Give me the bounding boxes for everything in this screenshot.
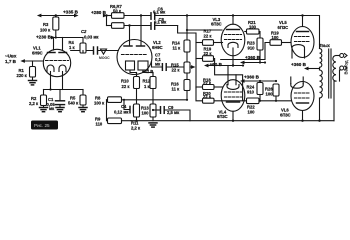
capacitor C7 <box>152 62 185 71</box>
label +230 V with arrow <box>36 35 55 40</box>
resistor R5 <box>79 95 87 112</box>
tube VL5 (6P3S) <box>291 16 314 59</box>
svg-text:22 к: 22 к <box>203 94 212 99</box>
svg-text:1,7 В: 1,7 В <box>5 59 17 64</box>
terminal output 1 <box>340 54 347 58</box>
svg-text:С2: С2 <box>81 29 87 34</box>
svg-text:+230 В: +230 В <box>36 35 52 40</box>
transformer Tvyh primary <box>318 49 322 122</box>
resistor R23 <box>257 38 263 63</box>
resistor R18 <box>196 85 223 90</box>
svg-text:22 к: 22 к <box>203 80 212 85</box>
svg-text:+42 В: +42 В <box>142 69 153 74</box>
capacitor C1 <box>56 101 65 112</box>
wire screen row to VL3 <box>187 29 222 31</box>
transformer secondary <box>333 56 340 121</box>
svg-text:0,03 мк: 0,03 мк <box>84 35 99 40</box>
svg-text:+360 В: +360 В <box>244 75 260 80</box>
svg-text:6Н9С: 6Н9С <box>152 45 163 50</box>
svg-text:100: 100 <box>266 92 274 97</box>
svg-text:100: 100 <box>248 109 256 114</box>
resistor R24 <box>257 83 263 102</box>
svg-text:Твых: Твых <box>319 43 331 48</box>
svg-text:22 к: 22 к <box>172 68 181 73</box>
wire +360 V tap upper <box>240 61 266 65</box>
figure label black box <box>31 121 58 130</box>
tube VL3 (6P3S) <box>221 16 245 67</box>
resistor R7 <box>107 16 151 29</box>
svg-text:Рис. 25: Рис. 25 <box>34 123 50 128</box>
resistor R6 <box>105 13 150 19</box>
resistor R16 <box>184 80 190 101</box>
terminal output 2 <box>340 66 348 81</box>
resistor R13 <box>134 104 140 122</box>
tube VL2 (6N9S) <box>117 14 153 76</box>
wire bottom rail <box>131 120 334 122</box>
svg-text:1 к: 1 к <box>144 84 150 89</box>
resistor R9 <box>107 100 132 124</box>
tube VL6 (6P3S) <box>291 77 314 122</box>
resistor R22 <box>247 98 292 104</box>
wire anode row VL1 <box>54 36 84 50</box>
svg-text:100 к: 100 к <box>40 28 51 33</box>
wire +360 V tap lower <box>240 79 277 83</box>
resistor R26 <box>273 84 279 102</box>
svg-text:+360 В: +360 В <box>245 55 261 60</box>
capacitor C6 <box>151 13 187 19</box>
resistor R17 <box>196 40 223 46</box>
label +360 V center tap <box>291 62 320 71</box>
resistor R4 <box>80 38 86 54</box>
resistor R10 <box>134 73 140 105</box>
svg-text:0,1 мк: 0,1 мк <box>153 10 166 15</box>
svg-text:+335 В: +335 В <box>63 10 79 15</box>
resistor R3 <box>53 14 59 37</box>
resistor R15 <box>184 62 190 80</box>
capacitor C2 coupling <box>71 47 119 54</box>
svg-text:6П3С: 6П3С <box>217 114 228 119</box>
svg-text:6П3С: 6П3С <box>278 25 289 30</box>
svg-text:мк: мк <box>49 106 55 111</box>
svg-text:МООС: МООС <box>99 56 110 60</box>
resistor R11 <box>150 104 156 121</box>
resistor R20 lower <box>196 87 246 103</box>
svg-text:6П3С: 6П3С <box>211 22 222 27</box>
svg-text:0,12 мк: 0,12 мк <box>114 110 129 115</box>
resistor R19b grid VL5 <box>270 40 291 46</box>
wire top anode rail <box>156 14 320 48</box>
resistor R21 <box>245 29 260 38</box>
ground under R11 <box>149 123 157 127</box>
svg-text:1 к: 1 к <box>69 45 75 50</box>
svg-text:110: 110 <box>96 122 103 127</box>
resistor R14 <box>184 40 190 62</box>
svg-text:100: 100 <box>272 35 280 40</box>
svg-text:мк: мк <box>155 61 161 66</box>
resistor R19 lower grid path <box>196 43 270 101</box>
wire C8 to lower grid path <box>178 26 196 89</box>
svg-text:2,2 к: 2,2 к <box>131 126 141 131</box>
svg-text:910: 910 <box>248 45 256 50</box>
capacitor C9 <box>152 107 190 121</box>
svg-text:100: 100 <box>249 24 257 29</box>
node +335 V supply wire <box>37 14 79 18</box>
svg-text:100: 100 <box>142 111 150 116</box>
capacitor C4 <box>123 99 134 113</box>
resistor R2 <box>40 95 48 112</box>
capacitor C8 <box>151 23 178 29</box>
svg-text:22 к: 22 к <box>204 51 213 56</box>
tube VL1 (6N9S) <box>43 49 70 89</box>
ground under R1 <box>29 81 37 85</box>
svg-text:R3: R3 <box>43 22 49 27</box>
wire +60 V row with arrows <box>190 64 244 69</box>
svg-text:+60 В: +60 В <box>210 62 223 67</box>
svg-text:22 к: 22 к <box>204 34 213 39</box>
transformer core <box>329 49 331 98</box>
svg-text:R12: R12 <box>143 79 151 84</box>
label input ~Uvx 1,7 V <box>5 54 17 65</box>
svg-text:100 к: 100 к <box>94 101 105 106</box>
svg-text:2,2 к: 2,2 к <box>29 101 39 106</box>
svg-text:Выход: Выход <box>344 60 349 74</box>
svg-text:11 к: 11 к <box>173 46 182 51</box>
resistor R8 <box>107 97 188 103</box>
resistor R12 <box>150 73 156 105</box>
svg-text:22 к: 22 к <box>122 84 131 89</box>
svg-text:540 к: 540 к <box>68 101 79 106</box>
wire VL1 cathode row <box>44 88 84 100</box>
node marker triangle <box>99 49 110 60</box>
svg-text:11 к: 11 к <box>172 87 181 92</box>
svg-text:+360 В: +360 В <box>291 62 307 67</box>
wire C6 junction down to R14 <box>186 14 188 40</box>
label +280 V with arrow <box>91 10 107 17</box>
tube VL4 (6P3S) <box>221 66 245 122</box>
svg-text:0,1 мк: 0,1 мк <box>154 19 167 24</box>
svg-text:С4: С4 <box>121 104 127 109</box>
svg-text:R10: R10 <box>121 79 129 84</box>
svg-text:6П3С: 6П3С <box>280 112 291 117</box>
svg-text:~Uвх: ~Uвх <box>5 54 17 59</box>
svg-text:2,5 мк: 2,5 мк <box>167 110 180 115</box>
svg-text:910: 910 <box>247 90 255 95</box>
resistor R1 <box>30 61 36 81</box>
svg-text:6Н9С: 6Н9С <box>32 51 43 56</box>
svg-text:220 к: 220 к <box>17 73 28 78</box>
wire input to grid <box>20 59 43 63</box>
